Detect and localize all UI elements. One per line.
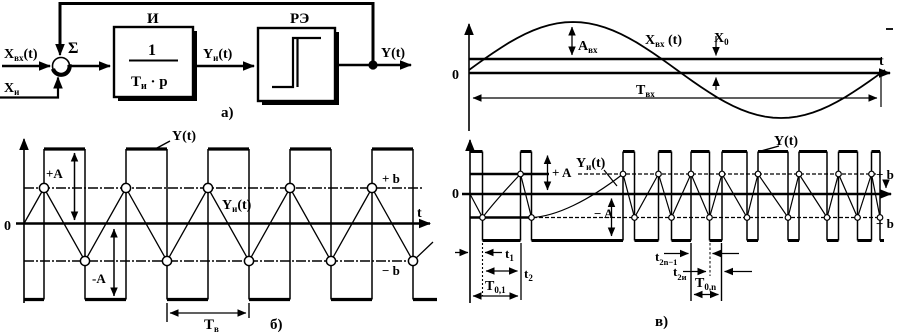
label Yi(t) (203, 47, 233, 63)
label a) (221, 105, 234, 121)
label 0 sine panel (452, 68, 459, 83)
extension line at t2n edge dotted (709, 243, 711, 276)
stray dash mark top right (886, 28, 893, 30)
label Xvx(t) (645, 33, 682, 49)
label Xvx(t) (4, 47, 38, 63)
label Tvx (636, 83, 655, 99)
label t1 (505, 246, 514, 263)
svg-text:Твх: Твх (636, 83, 655, 99)
extension line at t1 edge (482, 243, 484, 296)
label b) (270, 317, 283, 333)
svg-text:t: t (417, 206, 422, 221)
extension line at t2 edge (520, 243, 522, 300)
square wave Y(t) vertical edges panel b (44, 149, 413, 300)
svg-text:t2и: t2и (673, 264, 687, 282)
offset level X0 line (469, 58, 882, 61)
svg-text:Т0,n: Т0,n (695, 276, 716, 292)
small t tick arrow at axis end (885, 181, 887, 188)
label -A panel b (92, 271, 106, 286)
PWM square wave Y(t) horizontals high (470, 150, 880, 153)
svg-text:Σ: Σ (68, 40, 78, 57)
label Y(t) pwm with pointer (761, 134, 798, 151)
label I above integrator (147, 11, 159, 27)
t axis sine panel (469, 72, 890, 75)
period T0 extension lines panel b (167, 303, 249, 322)
svg-text:+A: +A (46, 166, 63, 181)
relay hysteresis symbol (272, 38, 321, 87)
svg-text:Тв: Тв (204, 317, 219, 333)
y axis panel b (23, 139, 25, 303)
label t2n-1 (655, 249, 677, 267)
wire summing node to integrator (70, 65, 110, 68)
label Y(t) output (381, 46, 405, 61)
label Y(t) panel b with pointer (157, 129, 196, 148)
svg-text:в): в) (655, 314, 668, 330)
svg-text:+ b: + b (876, 167, 894, 182)
svg-text:Y(t): Y(t) (381, 46, 405, 61)
dimension arrow t2 (486, 270, 518, 272)
label sigma (68, 40, 78, 57)
label 0 panel b (4, 219, 11, 234)
label t2n (673, 264, 687, 282)
y axis sine panel (468, 24, 470, 131)
svg-text:0: 0 (452, 68, 459, 83)
PWM square wave Y(t) vertical edges (483, 152, 881, 241)
wire integrator to relay (193, 65, 254, 68)
svg-text:Авх: Авх (578, 39, 598, 55)
label RE above relay (290, 11, 309, 27)
svg-text:Yи(t): Yи(t) (222, 198, 252, 214)
label v) (655, 314, 668, 330)
label 0 pwm panel (452, 187, 459, 202)
svg-text:+ A: + A (552, 165, 572, 180)
svg-text:Yи(t): Yи(t) (203, 47, 233, 63)
dimension t2n outside arrows (683, 271, 752, 273)
label Avx (578, 39, 598, 55)
label t panel b (417, 206, 422, 221)
t axis panel b (16, 222, 430, 225)
label Yi(t) panel b (222, 198, 252, 214)
svg-text:0: 0 (452, 187, 459, 202)
feedback wire from output node to summing node (60, 4, 373, 66)
svg-text:Yи(t): Yи(t) (576, 156, 606, 172)
dimension arrows X0 gap (715, 36, 717, 90)
dimension arrow T0,n (694, 294, 719, 296)
svg-text:1: 1 (148, 42, 156, 59)
wire relay to output (335, 64, 411, 67)
label T0 panel b (204, 317, 219, 333)
svg-text:0: 0 (4, 219, 11, 234)
relay block RE (258, 28, 339, 105)
threshold line +b panel b (24, 187, 424, 189)
label T0,1 (485, 279, 506, 295)
svg-text:Хвх(t): Хвх(t) (4, 47, 38, 63)
dimension arrow +A pwm (547, 156, 549, 191)
threshold line -b panel b (24, 260, 420, 262)
square wave Y(t) horizontals panel b (24, 149, 437, 300)
integrator fraction 1/(Ti*p) (129, 42, 178, 92)
junction node dot (368, 60, 377, 69)
label t sine panel (879, 54, 884, 69)
label T0,n (695, 276, 716, 292)
label -b pwm (876, 216, 894, 231)
label +A panel b (46, 166, 63, 181)
dimension arrow Avx (571, 27, 573, 55)
svg-text:t1: t1 (505, 246, 514, 263)
t axis pwm panel (462, 193, 891, 196)
y axis pwm panel (469, 140, 471, 303)
summing junction (53, 58, 70, 75)
svg-text:-A: -A (92, 271, 106, 286)
svg-text:− A: − A (594, 206, 614, 221)
PWM square wave Y(t) horizontals low (483, 239, 885, 242)
svg-text:+ b: + b (382, 171, 400, 186)
svg-text:РЭ: РЭ (290, 11, 309, 27)
period T0 dimension arrow panel b (170, 312, 246, 314)
svg-text:Хвх (t): Хвх (t) (645, 33, 682, 49)
switching point circles pwm (480, 171, 883, 220)
svg-text:Хи: Хи (4, 81, 19, 97)
svg-text:а): а) (221, 105, 234, 121)
dimension arrow -A panel b (113, 229, 115, 296)
svg-text:И: И (147, 11, 159, 27)
dimension arrow -A pwm (611, 199, 613, 237)
wire input Xi: horizontal then up into summing node bottom (0, 78, 58, 98)
period end extension line (880, 70, 882, 107)
threshold line -b pwm (470, 216, 877, 218)
dimension arrow Tvx (473, 97, 877, 99)
dimension arrow +A panel b (74, 153, 76, 220)
dimension t2n-1 outside arrows (664, 253, 739, 255)
svg-text:t2: t2 (524, 266, 533, 283)
dimension arrow T0,1 (473, 295, 518, 297)
integrator block I (1/Ti p) (114, 27, 197, 101)
label X0 (714, 31, 729, 47)
triangle wave Yi(t) pwm (470, 174, 880, 218)
svg-text:Т0,1: Т0,1 (485, 279, 506, 295)
label +b panel b (382, 171, 400, 186)
svg-text:Y(t): Y(t) (172, 129, 196, 144)
svg-text:− b: − b (382, 263, 400, 278)
label +b pwm (876, 167, 894, 182)
wire input Xvx arrow into summing node (2, 65, 50, 68)
dimension t1 outside arrows (455, 252, 502, 254)
label -b panel b (382, 263, 400, 278)
svg-text:б): б) (270, 317, 283, 333)
triangle wave Yi(t) panel b (24, 188, 433, 261)
extension line at T0n right edge (721, 243, 723, 301)
label t2 (524, 266, 533, 283)
label -A pwm (594, 206, 614, 221)
label Yi(t) pwm (576, 156, 617, 186)
switching point circles panel b (39, 183, 417, 265)
svg-text:Ти · р: Ти · р (131, 74, 168, 92)
extension line at t2n-1 left edge (690, 243, 692, 301)
svg-text:t: t (879, 54, 884, 69)
threshold line +b pwm (470, 173, 877, 175)
label Xi (4, 81, 19, 97)
label +A pwm (552, 165, 572, 180)
sine wave Xvx(t) (469, 22, 885, 118)
